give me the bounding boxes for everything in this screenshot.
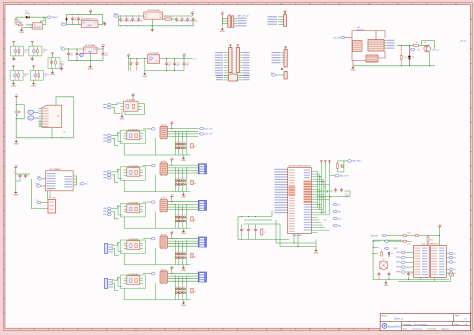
svg-text:K5: K5 xyxy=(163,269,165,271)
header J5 xyxy=(236,45,242,76)
svg-text:R33: R33 xyxy=(430,239,433,241)
svg-text:11: 11 xyxy=(309,329,311,331)
relay 1 vcc xyxy=(170,122,174,129)
svg-text:6: 6 xyxy=(164,329,165,331)
flag ch340 out xyxy=(80,183,89,186)
svg-text:REV:: REV: xyxy=(455,316,460,318)
usb connector J3 xyxy=(39,105,62,127)
svg-text:IO: IO xyxy=(454,269,457,271)
ground block F xyxy=(351,61,356,72)
transistor Q2 xyxy=(424,42,431,53)
svg-text:100n: 100n xyxy=(176,65,180,67)
svg-text:Your Company: Your Company xyxy=(414,324,427,326)
svg-text:R9: R9 xyxy=(416,42,418,44)
svg-text:D4: D4 xyxy=(412,57,414,59)
top rail reg2 xyxy=(65,48,103,51)
cap C12 xyxy=(102,52,109,61)
resistor R5 usb xyxy=(15,111,21,117)
svg-text:22u: 22u xyxy=(189,20,192,22)
svg-text:X1: X1 xyxy=(382,259,384,261)
svg-text:J: J xyxy=(4,284,5,286)
diode array 3 ground xyxy=(181,228,186,235)
brm pullup R31 xyxy=(402,232,440,236)
polar cap C11 xyxy=(80,53,83,56)
mcu bottom wires right xyxy=(294,234,316,249)
capacitor C1 xyxy=(71,14,79,25)
decoupling cap C7 motif xyxy=(48,53,65,76)
resistor R10 xyxy=(400,45,407,66)
mcu bottom rails xyxy=(238,211,316,247)
mcu right dots xyxy=(320,176,331,220)
title block sheet xyxy=(454,323,468,326)
reg3 bottom rail xyxy=(145,69,184,72)
svg-text:IO: IO xyxy=(454,253,457,255)
header J4 xyxy=(229,45,234,76)
crystal Y1 xyxy=(48,198,56,213)
reg3 cap C18 xyxy=(135,59,140,71)
cap C10 xyxy=(76,49,83,61)
svg-text:8: 8 xyxy=(223,329,224,331)
mcu top rc xyxy=(337,161,344,172)
svg-text:U3 SY8120B1: U3 SY8120B1 xyxy=(147,10,161,12)
svg-text:B0505S: B0505S xyxy=(357,29,364,31)
net flag AC input xyxy=(334,36,352,39)
reg3 cap C14 xyxy=(165,59,171,71)
brm left rail xyxy=(373,240,402,279)
relay 4 out connector xyxy=(198,237,206,247)
reg3 input rail xyxy=(129,58,148,70)
svg-text:22u: 22u xyxy=(178,20,181,22)
opto unit0 input flags xyxy=(103,103,111,109)
relay unit 5 input flags xyxy=(105,278,114,288)
wire diode to net flag VOUT xyxy=(29,16,46,19)
relay unit 1 input flags xyxy=(103,134,111,143)
ch340 bottom wires xyxy=(31,179,50,209)
svg-text:Q1: Q1 xyxy=(33,24,36,26)
net label right edge xyxy=(461,40,467,43)
svg-text:OUT: OUT xyxy=(155,61,158,63)
wire U1 EN loop xyxy=(41,17,44,23)
svg-text:10u: 10u xyxy=(168,65,171,67)
brm module U12 xyxy=(414,244,447,278)
buck U3 SY8120 xyxy=(144,10,163,19)
svg-text:OUT: OUT xyxy=(93,49,97,51)
unit0 ground xyxy=(120,111,125,120)
bottom winding box xyxy=(366,51,385,62)
power flag +5V buck1 xyxy=(191,12,195,16)
module U4 outline loop xyxy=(352,27,385,60)
ground reg3 xyxy=(142,71,147,78)
svg-text:22u: 22u xyxy=(195,20,198,22)
LED indicator LED1 xyxy=(11,42,29,61)
flag BAT_ADC xyxy=(343,160,362,163)
diode array 2 ground xyxy=(181,192,186,199)
diode array unit 5 xyxy=(175,276,197,300)
ground ch340 left xyxy=(13,191,18,197)
power flag J2 xyxy=(283,10,287,14)
svg-text:SW: SW xyxy=(271,73,274,75)
ground buck1 xyxy=(151,26,154,31)
svg-text:R34: R34 xyxy=(450,272,453,274)
svg-text:12: 12 xyxy=(338,3,340,5)
net flag relay 3 coil xyxy=(143,201,155,204)
svg-text:16: 16 xyxy=(455,3,457,5)
zener D2 xyxy=(65,18,68,25)
svg-text:U14 EL357N: U14 EL357N xyxy=(128,239,138,241)
relay unit 5 return loop xyxy=(124,283,190,300)
buck1 caps left xyxy=(119,16,143,23)
header J2 xyxy=(284,13,287,26)
svg-text:C13: C13 xyxy=(13,172,16,174)
power flag usb xyxy=(15,95,19,99)
svg-text:R2: R2 xyxy=(19,22,21,24)
brm bottom rails xyxy=(373,277,451,281)
unit0 vcc xyxy=(131,94,135,101)
ground usb xyxy=(14,140,19,146)
mcu right stubs xyxy=(311,172,329,233)
LED indicator LED2 xyxy=(29,42,47,61)
net flag VIN ams1117 xyxy=(61,22,66,26)
svg-text:10u: 10u xyxy=(140,20,143,22)
inductor L1 xyxy=(163,16,174,20)
reg3 output rail xyxy=(160,58,197,60)
svg-text:U2 AMS1117-3.3: U2 AMS1117-3.3 xyxy=(83,18,99,21)
svg-text:U13 EL357N: U13 EL357N xyxy=(128,203,138,205)
svg-text:+3V3: +3V3 xyxy=(14,166,18,168)
brm flag EN xyxy=(371,234,402,237)
svg-text:13: 13 xyxy=(367,3,369,5)
brm xtal R xyxy=(373,250,383,256)
svg-text:2023-05-14: 2023-05-14 xyxy=(412,328,423,330)
brm flag xtal xyxy=(373,247,397,250)
relay unit 3 input wires xyxy=(112,206,121,219)
relay 2 out connector xyxy=(198,164,206,174)
J1 net labels xyxy=(237,14,249,26)
svg-text:U5 XC6206: U5 XC6206 xyxy=(85,45,96,47)
wire U1 to ground xyxy=(22,27,33,28)
header J7 xyxy=(284,47,287,67)
svg-text:1: 1 xyxy=(19,3,20,5)
diode array unit 3 xyxy=(175,205,197,229)
svg-text:12: 12 xyxy=(338,329,340,331)
svg-text:10u: 10u xyxy=(70,55,73,57)
relay 4 vcc xyxy=(170,231,174,238)
svg-text:15: 15 xyxy=(426,3,428,5)
svg-text:J3: J3 xyxy=(57,116,59,118)
bottom rail reg2 xyxy=(69,59,104,62)
brm xtal diode xyxy=(388,252,393,257)
diode array 1 ground xyxy=(181,155,186,162)
relay 4 output wires xyxy=(167,238,198,247)
net flag opto in xyxy=(410,48,421,51)
svg-text:R31: R31 xyxy=(408,232,411,234)
power +5V label xyxy=(89,10,93,15)
svg-text:7: 7 xyxy=(193,3,194,5)
reg3 cap C16 xyxy=(183,59,190,71)
svg-text:13: 13 xyxy=(367,329,369,331)
svg-text:5: 5 xyxy=(135,3,136,5)
relay unit 4 return loop xyxy=(124,248,190,265)
relay 5 out connector xyxy=(198,272,206,282)
svg-text:AC_N: AC_N xyxy=(461,40,467,43)
resistor R1 xyxy=(15,18,23,24)
power flag +3V3 reg2 xyxy=(101,45,105,53)
transformer secondary box xyxy=(368,31,384,52)
resistor R2 xyxy=(17,22,23,26)
header J7 labels xyxy=(272,52,285,63)
svg-text:+3V3: +3V3 xyxy=(101,45,105,47)
svg-text:+3V3: +3V3 xyxy=(438,225,442,227)
flag ch340 crystal net xyxy=(36,200,48,204)
relay K1 xyxy=(160,124,167,139)
svg-text:AC_IN: AC_IN xyxy=(334,36,340,39)
mcu vcc arrows xyxy=(320,161,331,164)
net flag VBUS to buck xyxy=(113,14,119,18)
relay 2 output wires xyxy=(167,165,198,174)
svg-text:4: 4 xyxy=(106,3,107,5)
svg-text:8: 8 xyxy=(223,3,224,5)
capacitor C2 xyxy=(77,14,84,25)
brm ground xyxy=(384,280,389,287)
wires block F right xyxy=(353,41,440,67)
crystal X1 xyxy=(379,259,388,270)
diode array unit 4 xyxy=(175,241,197,265)
relay unit 5 input wires xyxy=(112,278,121,291)
title block REV xyxy=(455,316,467,321)
transformer primary box xyxy=(353,41,363,52)
svg-text:J: J xyxy=(471,284,472,286)
relay 3 output wires xyxy=(167,201,198,210)
diode D1 xyxy=(25,11,31,19)
block F bottom rail left xyxy=(353,65,393,67)
svg-text:U15 EL357N: U15 EL357N xyxy=(128,274,138,276)
reg2 gnd pin wire xyxy=(89,54,91,65)
svg-text:TITLE:: TITLE: xyxy=(382,315,388,317)
svg-text:3: 3 xyxy=(77,3,78,5)
flag ch340 rxd xyxy=(36,184,46,188)
brm vcc xyxy=(438,225,442,246)
svg-text:R32: R32 xyxy=(408,244,411,246)
svg-text:U9 EL357N: U9 EL357N xyxy=(126,100,136,102)
svg-text:+3V3: +3V3 xyxy=(182,54,186,56)
buck1 caps right xyxy=(175,17,198,26)
buck1 bottom rail xyxy=(119,16,194,26)
top rail buck1 xyxy=(119,15,193,17)
relay 1 output wires xyxy=(167,128,198,137)
diode array 4 ground xyxy=(181,265,186,272)
wire J1 left pins xyxy=(222,17,228,27)
svg-text:4: 4 xyxy=(106,329,107,331)
relay 3 vcc xyxy=(170,195,174,202)
title block TITLE xyxy=(382,315,404,320)
svg-text:Nagarjun: Nagarjun xyxy=(441,328,449,330)
regulator U2 AMS1117-3.3 xyxy=(82,18,99,28)
relay 5 output wires xyxy=(167,273,198,282)
net flag VBUS xyxy=(47,16,59,19)
svg-text:U12 TZT-ESP32-C3: U12 TZT-ESP32-C3 xyxy=(422,244,439,246)
header J4 left labels xyxy=(215,52,229,76)
buck1 sw wire xyxy=(162,18,177,20)
J2 net labels xyxy=(268,16,284,25)
svg-text:3V3: 3V3 xyxy=(193,59,196,61)
svg-text:RLY_5V: RLY_5V xyxy=(432,50,439,52)
mcu mid rc pair xyxy=(317,188,350,198)
mcu U8 xyxy=(288,165,312,237)
svg-text:IO: IO xyxy=(454,273,457,275)
optocoupler U12 xyxy=(118,166,145,180)
svg-text:+3V3: +3V3 xyxy=(131,94,135,96)
svg-text:D6: D6 xyxy=(391,253,393,255)
diode D4 xyxy=(408,45,414,66)
brm cap C30 xyxy=(407,272,413,280)
wire R1 to R2 xyxy=(16,23,17,26)
svg-text:U6: U6 xyxy=(63,132,65,134)
brm flag IO0 xyxy=(372,240,402,243)
svg-text:Date:: Date: xyxy=(403,327,408,330)
svg-text:CH340: CH340 xyxy=(47,189,53,191)
module pin labels xyxy=(384,40,395,49)
svg-text:U13 RT9013: U13 RT9013 xyxy=(148,53,158,55)
usb green pins lower xyxy=(39,121,41,126)
svg-text:R5: R5 xyxy=(17,115,19,117)
svg-text:RL1_NC: RL1_NC xyxy=(204,134,212,136)
ch340 left rail xyxy=(15,170,17,191)
svg-text:14: 14 xyxy=(397,3,399,5)
power flag conn J1 xyxy=(221,12,225,16)
diode array unit 1 xyxy=(175,131,197,155)
svg-text:BAT_ADC: BAT_ADC xyxy=(352,160,362,163)
relay unit 2 return loop xyxy=(124,175,190,192)
wire VIN to diode D1 xyxy=(16,17,26,21)
svg-text:Company:: Company: xyxy=(403,324,412,326)
svg-text:K4: K4 xyxy=(163,234,165,236)
flag BAT_DET xyxy=(330,174,350,177)
svg-text:10: 10 xyxy=(280,3,282,5)
regulator U13 RT9013 xyxy=(147,53,159,64)
svg-text:2: 2 xyxy=(48,3,49,5)
relay 1 out flags xyxy=(199,127,213,135)
relay unit 1 return loop xyxy=(124,138,190,155)
wire U2 out xyxy=(98,14,103,24)
easyeda logo xyxy=(382,324,401,329)
relay unit 4 input wires xyxy=(112,243,121,256)
title block company xyxy=(403,324,427,326)
svg-text:Y1 12M: Y1 12M xyxy=(49,198,56,200)
relay unit 1 input wires xyxy=(112,133,121,146)
svg-text:K3: K3 xyxy=(163,198,165,200)
brm pullup R32 xyxy=(402,240,412,246)
net flag input reg2 xyxy=(60,47,65,51)
net flag relay 5 coil xyxy=(143,272,155,275)
top rail block B xyxy=(67,13,103,15)
optocoupler U9 xyxy=(121,100,142,112)
ground U2 xyxy=(103,22,107,25)
svg-text:K1: K1 xyxy=(163,125,165,127)
svg-text:9: 9 xyxy=(252,329,253,331)
svg-text:Drawn By:: Drawn By: xyxy=(428,327,437,330)
ground flag block A xyxy=(19,28,24,34)
svg-text:K2: K2 xyxy=(163,161,165,163)
optocoupler U11 xyxy=(118,129,145,143)
power flag ch340 xyxy=(14,166,18,170)
svg-text:SW: SW xyxy=(159,14,162,16)
relay unit 4 input flags xyxy=(105,243,114,253)
wire module out top xyxy=(397,44,429,47)
svg-text:U11 EL357N: U11 EL357N xyxy=(128,129,138,131)
optocoupler U13 xyxy=(118,203,145,217)
svg-text:EN: EN xyxy=(338,225,341,227)
mcu bottom caps xyxy=(240,225,266,240)
bottom box J6 xyxy=(216,74,250,81)
svg-text:AO3401: AO3401 xyxy=(34,26,41,29)
relay 5 vcc xyxy=(170,266,174,273)
mcu ground xyxy=(314,249,319,255)
svg-text:D-: D- xyxy=(30,112,32,114)
svg-text:6: 6 xyxy=(164,3,165,5)
relay 2 vcc xyxy=(170,158,174,165)
title block date xyxy=(403,327,449,330)
svg-text:10u: 10u xyxy=(128,20,131,22)
relay unit 2 input flags xyxy=(103,171,111,180)
relay unit 3 return loop xyxy=(124,211,190,228)
usb left rail xyxy=(15,99,18,138)
reg3 cap C15 xyxy=(173,59,180,71)
svg-text:Q2: Q2 xyxy=(424,42,426,44)
flag USB D+ xyxy=(28,116,39,120)
power flag reg3 xyxy=(182,54,186,58)
relay unit 3 input flags xyxy=(103,207,111,216)
LED indicator LED3 xyxy=(10,66,28,87)
relay 3 out connector xyxy=(198,200,206,210)
relay unit 2 input wires xyxy=(112,169,121,182)
mcu right bus wires xyxy=(318,162,330,214)
svg-text:R10: R10 xyxy=(404,57,407,59)
unit0 right loop xyxy=(125,104,145,115)
svg-text:IO: IO xyxy=(454,262,457,264)
mcu right flags xyxy=(333,203,343,227)
svg-text:IO: IO xyxy=(454,257,457,259)
diode array unit 2 xyxy=(175,168,197,192)
ch340 caps row xyxy=(13,172,30,181)
power flag reg3 in xyxy=(127,54,131,58)
svg-text:C30: C30 xyxy=(410,273,413,275)
J1 right wires xyxy=(234,19,237,27)
svg-text:26M: 26M xyxy=(394,248,398,250)
mosfet U1 xyxy=(33,17,46,29)
svg-text:3: 3 xyxy=(77,329,78,331)
relay K2 xyxy=(160,161,167,176)
svg-text:VBUS: VBUS xyxy=(113,14,119,16)
header J5 right labels xyxy=(243,52,250,76)
ch340 U7 box xyxy=(46,169,74,191)
svg-text:VBUS: VBUS xyxy=(52,17,58,19)
header J1 xyxy=(228,14,234,27)
relay K5 xyxy=(160,269,167,284)
svg-text:10u: 10u xyxy=(134,20,137,22)
net flag relay 4 coil xyxy=(143,237,155,240)
svg-text:EasyEDA: EasyEDA xyxy=(388,324,401,328)
brm right flags xyxy=(446,252,456,275)
svg-text:U7 CH340C: U7 CH340C xyxy=(50,169,62,171)
svg-text:10: 10 xyxy=(280,329,282,331)
reg3 cap C17 xyxy=(129,59,134,71)
regulator U5 xyxy=(84,45,98,53)
flag ch340 txd xyxy=(37,176,46,180)
svg-text:7: 7 xyxy=(193,329,194,331)
svg-text:10u: 10u xyxy=(122,20,125,22)
ground conn J1 xyxy=(220,27,225,33)
opto unit0 wires xyxy=(112,103,121,114)
